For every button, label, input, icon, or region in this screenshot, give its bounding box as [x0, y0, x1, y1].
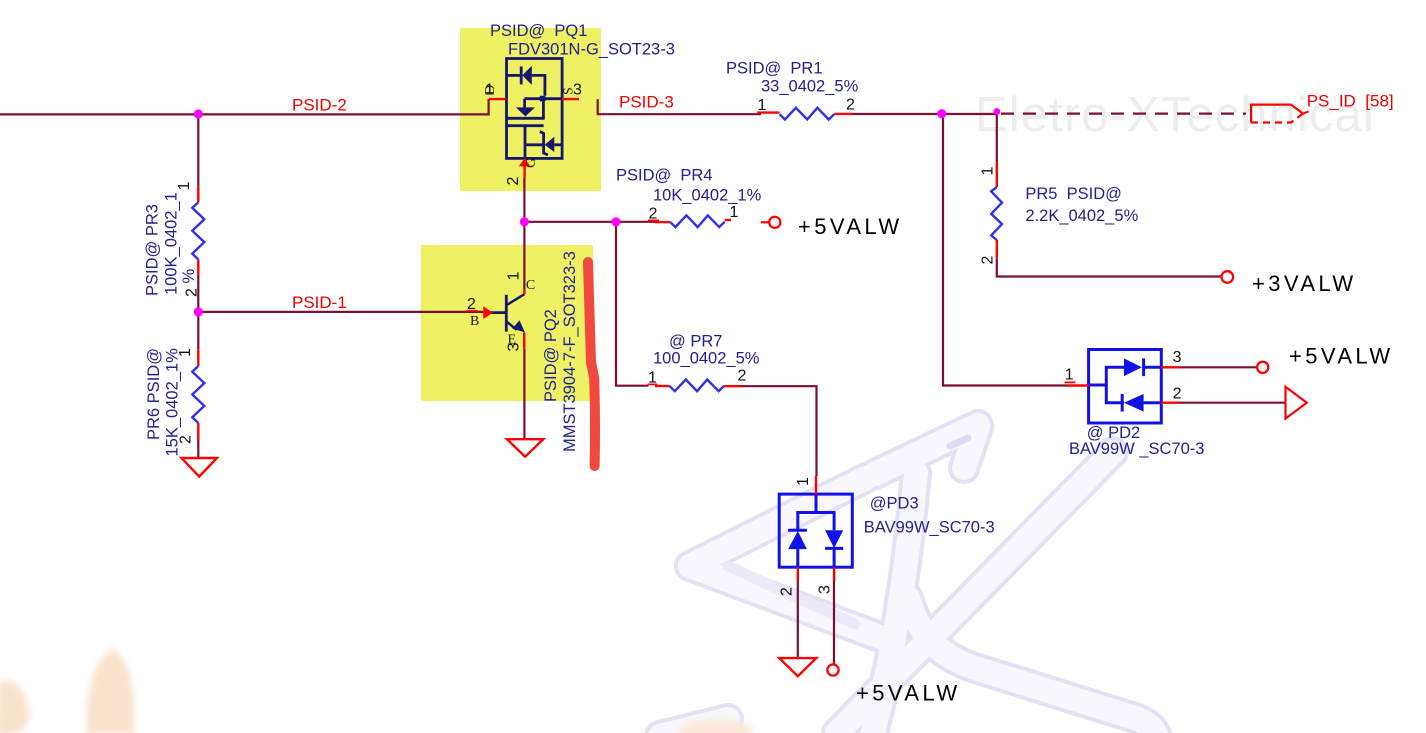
svg-text:100K_0402_1: 100K_0402_1	[163, 192, 181, 295]
wire PR3 top: junction A down to PR3 pin1	[197, 114, 199, 186]
svg-text:BAV99W _SC70-3: BAV99W _SC70-3	[1069, 440, 1204, 458]
svg-text:2: 2	[846, 97, 855, 114]
svg-text:PSID-3: PSID-3	[619, 92, 674, 111]
PD2 pin1 red stub	[1069, 384, 1089, 386]
junction node B	[937, 109, 946, 118]
svg-text:1: 1	[176, 182, 193, 191]
svg-text:PR6 PSID@: PR6 PSID@	[145, 348, 163, 440]
transistor PQ2 MMST3904 NPN	[490, 294, 525, 332]
wire junction D to junction E	[524, 221, 616, 223]
watermark X logo outer tubes	[660, 425, 1157, 733]
off-page flag PS_ID	[1251, 105, 1308, 123]
svg-text:@PD3: @PD3	[870, 494, 919, 512]
svg-text:D: D	[483, 85, 498, 95]
svg-text:FDV301N-G_SOT23-3: FDV301N-G_SOT23-3	[508, 40, 675, 58]
transistor PQ1 FDV301N MOSFET	[507, 59, 563, 159]
PD2 pin3 red stub	[1161, 366, 1179, 368]
wire PR5 node down to PR5 pin1	[996, 112, 998, 163]
svg-text:1: 1	[795, 477, 812, 486]
highlight box over PQ2	[421, 245, 593, 401]
watermark X logo inner tubes	[660, 425, 1157, 733]
red marker annotation stroke	[588, 262, 595, 466]
svg-text:C: C	[526, 278, 535, 293]
PQ2 base red arrow	[483, 306, 493, 319]
PQ2 pin2 red underline	[467, 310, 478, 312]
PD3 pin3 red stub	[833, 567, 835, 581]
svg-text:3: 3	[817, 585, 834, 594]
wire PSID-3 from PQ1 to PR1	[598, 99, 761, 114]
svg-text:+3VALW: +3VALW	[1252, 271, 1357, 296]
wire junction B down to PD2 pin1	[943, 114, 1069, 386]
svg-text:10K_0402_1%: 10K_0402_1%	[653, 186, 762, 204]
resistor PR4 10K horizontal	[655, 215, 731, 227]
svg-text:BAV99W_SC70-3: BAV99W_SC70-3	[864, 518, 995, 536]
PR4 pin2 red underline	[648, 220, 659, 222]
svg-text:33_0402_5%: 33_0402_5%	[761, 77, 859, 95]
svg-text:+5VALW: +5VALW	[1289, 343, 1394, 368]
wire PSID-1 from junction C to PQ2 base arrow	[198, 311, 483, 313]
PD2 pin2 red stub	[1161, 402, 1179, 404]
watermark peach petal left corner	[0, 681, 29, 733]
svg-text:PSID@ PQ2: PSID@ PQ2	[542, 309, 560, 402]
PR7 pin1 red underline	[648, 384, 658, 386]
PD2 pin1 red underline	[1065, 382, 1076, 384]
wire PR1 pin2 to junction node B	[852, 113, 943, 115]
wire dashed to PS_ID flag	[1001, 112, 1246, 114]
svg-text:PSID-1: PSID-1	[292, 293, 347, 312]
svg-text:PSID@ PR3: PSID@ PR3	[144, 204, 162, 296]
wire junction B to PR5 top node	[942, 113, 998, 115]
junction node C	[194, 307, 203, 316]
svg-text:1: 1	[758, 97, 767, 114]
resistor PR7 100 horizontal	[655, 380, 742, 392]
resistor PR6 15K vertical	[192, 350, 204, 439]
svg-text:2: 2	[738, 368, 747, 385]
svg-text:2.2K_0402_5%: 2.2K_0402_5%	[1025, 207, 1138, 225]
wire PD3 pin2 to ground G3	[797, 580, 799, 658]
junction node E	[611, 217, 620, 226]
PD3 pin2 red stub	[797, 567, 799, 581]
svg-text:100_0402_5%: 100_0402_5%	[653, 349, 760, 367]
PQ1 pin1 red stub	[489, 98, 507, 100]
resistor PR1 33 horizontal	[757, 108, 852, 120]
svg-text:PSID@ PR1: PSID@ PR1	[726, 59, 823, 77]
watermark peach petal 2	[86, 648, 134, 733]
PQ2 emitter red stub	[523, 332, 525, 349]
portal arrow at PD2 pin2	[1286, 387, 1307, 419]
svg-text:%: %	[180, 269, 198, 284]
svg-text:PSID@ PR4: PSID@ PR4	[616, 166, 713, 184]
wire PD2 pin3 to +5VALW circle	[1179, 366, 1258, 368]
wire PSID-2 from left edge to PQ1 jog	[0, 99, 489, 114]
junction node D	[520, 217, 529, 226]
diode PD3 BAV99W dual	[779, 494, 852, 567]
wire PR6 pin2 to ground G1	[197, 439, 199, 459]
wire PD3 pin3 to +5VALW circle	[833, 580, 835, 665]
svg-text:1: 1	[505, 272, 522, 281]
svg-text:G: G	[524, 158, 539, 168]
power +5VALW circle below PD3	[827, 664, 838, 675]
PQ1 pin3 red stub	[562, 98, 579, 100]
watermark inner hook detail	[950, 438, 968, 446]
wire junction E to PR4 pin2	[616, 221, 656, 223]
wire PD2 pin2 to portal arrow	[1179, 402, 1286, 404]
svg-text:@ PR7: @ PR7	[669, 332, 722, 350]
svg-text:2: 2	[184, 288, 201, 297]
svg-text:PSID@ PQ1: PSID@ PQ1	[490, 22, 587, 40]
wire PQ1 gate down to junction D	[523, 177, 525, 222]
svg-text:3: 3	[505, 343, 522, 352]
power +3VALW circle	[1222, 271, 1234, 283]
junction node A	[194, 109, 203, 118]
wire junction E down to PR7 pin1	[616, 222, 648, 386]
diode PD2 BAV99W dual	[1089, 350, 1162, 424]
ground G3 below PD3	[779, 658, 816, 676]
watermark arrow inner stripe	[728, 566, 855, 624]
svg-text:2: 2	[779, 587, 796, 596]
svg-text:PS_ID [58]: PS_ID [58]	[1307, 91, 1394, 110]
highlight box over PQ1	[460, 28, 601, 191]
PD3 pin1 red stub	[815, 476, 817, 494]
HIGHLIGHTS	[421, 28, 601, 401]
PQ2 collector red stub	[523, 290, 525, 294]
svg-text:+5VALW: +5VALW	[856, 681, 961, 706]
svg-text:1: 1	[177, 348, 194, 357]
svg-text:PSID-2: PSID-2	[292, 96, 347, 115]
ground G1 below PR6	[182, 458, 218, 477]
wire junction D down to PQ2 collector	[523, 222, 525, 290]
wire PQ2 emitter to ground G2	[523, 349, 525, 439]
svg-text:2: 2	[505, 177, 522, 186]
svg-text:1: 1	[980, 167, 997, 176]
junction node F small	[993, 108, 1000, 115]
power +5VALW circle at PR4	[761, 217, 781, 228]
svg-text:1: 1	[730, 204, 739, 221]
svg-text:2: 2	[980, 256, 997, 265]
svg-text:2: 2	[178, 435, 195, 444]
svg-text:PR5 PSID@: PR5 PSID@	[1025, 185, 1122, 203]
ground G2 below PQ2	[507, 439, 543, 457]
svg-text:1: 1	[1065, 367, 1074, 384]
wire PR7 pin2 to PD3 pin1	[742, 386, 817, 476]
PQ1 pin2 gate red arrow	[519, 158, 530, 177]
wire PR5 pin2 to +3VALW circle	[997, 259, 1222, 277]
svg-text:3: 3	[1173, 349, 1182, 366]
wire PR3 pin2 to junction C	[197, 275, 199, 312]
resistor PR5 2.2K vertical	[991, 163, 1002, 259]
power +5VALW circle at PD2	[1257, 362, 1268, 373]
svg-text:S: S	[562, 87, 577, 95]
svg-text:2: 2	[1173, 386, 1182, 403]
watermark peach bit bottom center	[679, 719, 753, 733]
resistor PR3 100K vertical	[192, 186, 204, 275]
svg-text:MMST3904-7-F_SOT323-3: MMST3904-7-F_SOT323-3	[561, 251, 579, 452]
wire junction C down to PR6 pin1	[197, 312, 199, 350]
svg-text:+5VALW: +5VALW	[798, 214, 903, 239]
svg-text:B: B	[470, 314, 479, 329]
